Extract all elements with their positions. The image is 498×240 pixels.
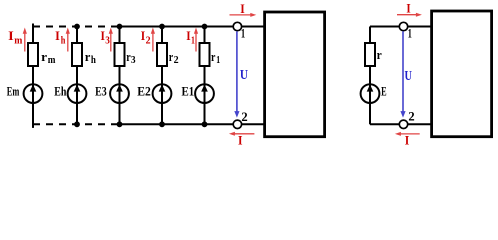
svg-text:Eh: Eh <box>54 85 66 99</box>
svg-text:h: h <box>91 55 96 66</box>
svg-text:2: 2 <box>146 35 151 46</box>
svg-text:Em: Em <box>7 85 20 99</box>
svg-text:U: U <box>240 68 248 83</box>
svg-text:2: 2 <box>408 108 414 123</box>
svg-text:h: h <box>61 35 66 46</box>
svg-text:1: 1 <box>408 26 412 41</box>
svg-text:r: r <box>85 49 91 64</box>
svg-text:E2: E2 <box>137 85 151 99</box>
svg-text:1: 1 <box>241 26 245 41</box>
svg-text:I: I <box>240 2 245 16</box>
svg-text:r: r <box>211 49 216 64</box>
svg-text:I: I <box>406 2 410 16</box>
svg-text:3: 3 <box>105 35 110 46</box>
svg-text:U: U <box>405 69 413 84</box>
svg-text:1: 1 <box>191 35 195 46</box>
svg-text:1: 1 <box>216 55 220 66</box>
svg-text:r: r <box>169 49 174 64</box>
svg-text:E3: E3 <box>95 85 107 99</box>
svg-text:2: 2 <box>241 109 247 124</box>
svg-text:r: r <box>377 47 382 62</box>
svg-text:E: E <box>381 85 387 99</box>
svg-text:m: m <box>14 35 23 46</box>
svg-text:I: I <box>238 134 243 146</box>
svg-text:m: m <box>48 55 56 66</box>
svg-text:E1: E1 <box>182 85 195 99</box>
svg-text:I: I <box>55 29 60 43</box>
svg-text:3: 3 <box>131 55 136 66</box>
svg-text:2: 2 <box>174 55 179 66</box>
svg-text:I: I <box>8 29 14 43</box>
svg-text:I: I <box>405 134 410 146</box>
svg-text:r: r <box>41 49 47 64</box>
